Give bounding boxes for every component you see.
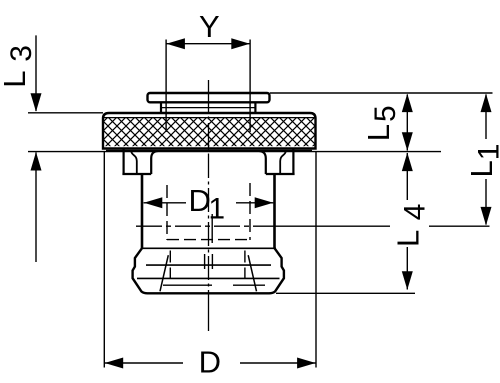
- dimension L1 line: [485, 95, 487, 225]
- dimension L3 upper shaft: [28, 35, 103, 112]
- left cam inner edge: [131, 151, 137, 174]
- left chamfer slant: [160, 255, 168, 291]
- dimension L1 top arrow: [481, 94, 492, 113]
- svg-text:L5: L5: [361, 105, 402, 141]
- extension line bottom face: [276, 292, 415, 294]
- svg-text:D1: D1: [189, 183, 226, 226]
- dimension L4 line: [406, 153, 408, 290]
- svg-text:L3: L3: [0, 45, 38, 88]
- dimension D line: [104, 362, 315, 364]
- dimension Y line: [166, 43, 250, 45]
- lower bulge silhouette: [133, 248, 284, 293]
- dimension D1 line: [144, 202, 274, 204]
- right drive cam: [260, 149, 295, 175]
- hidden square bore bottom: [167, 239, 250, 241]
- body cylinder left edge: [141, 174, 144, 249]
- ring bottom inner line: [106, 149, 312, 151]
- hidden thread line bottom: [163, 284, 265, 286]
- body cylinder right edge: [273, 174, 276, 249]
- svg-text:D: D: [199, 344, 221, 379]
- dimension L4 bottom arrow: [402, 271, 413, 290]
- knurled ring hatch fill: [104, 118, 315, 146]
- dimension L5 line: [406, 95, 408, 151]
- dimension D1 right arrow: [255, 197, 274, 208]
- hidden square bore left: [166, 185, 168, 240]
- groove line: [146, 264, 271, 266]
- vertical center line: [208, 80, 210, 331]
- dimension D extension lines: [104, 152, 316, 368]
- top collar flange: [148, 93, 270, 102]
- dimension L5 bottom arrow: [402, 132, 413, 151]
- hidden square bore right: [249, 183, 251, 240]
- dimension L4 top arrow: [402, 153, 413, 172]
- right chamfer slant: [248, 255, 256, 291]
- hidden thread bore left: [169, 251, 171, 279]
- extension line collar top: [270, 92, 493, 94]
- bulge step line: [141, 247, 276, 249]
- neck relief line: [161, 107, 255, 109]
- extension line ring bottom: [28, 151, 441, 153]
- hidden center detail dashes: [205, 214, 213, 269]
- dimension D right arrow: [297, 358, 316, 369]
- right cam inner edge: [280, 151, 286, 174]
- hidden thread bore right: [244, 251, 246, 279]
- dimension Y right arrow: [231, 38, 250, 49]
- svg-text:Y: Y: [199, 9, 220, 44]
- dimension D1 left arrow: [144, 197, 163, 208]
- svg-text:L4: L4: [390, 204, 431, 247]
- dimension Y extension lines: [166, 40, 250, 133]
- knurl top boundary line: [104, 117, 316, 119]
- dimension L3 top arrow: [31, 93, 42, 112]
- dimension L5 top arrow: [402, 94, 413, 113]
- horizontal center line extension right: [429, 225, 490, 227]
- dimension L3 lower shaft: [35, 152, 37, 262]
- dimension L3 bottom arrow: [31, 152, 42, 171]
- dimension Y left arrow: [166, 38, 185, 49]
- horizontal center line groove axis: [136, 225, 272, 227]
- knurled ring outline: [103, 113, 316, 149]
- svg-text:L1: L1: [464, 144, 500, 178]
- dimension L1 bottom arrow: [481, 207, 492, 226]
- left drive cam: [122, 149, 157, 175]
- bulge widest line: [137, 277, 280, 279]
- dimension D left arrow: [105, 358, 124, 369]
- neck below collar: [161, 103, 255, 114]
